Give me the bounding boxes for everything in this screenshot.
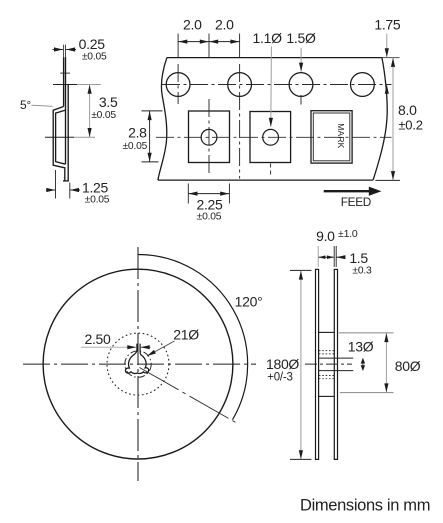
svg-text:1.5: 1.5: [349, 250, 368, 266]
dimension 80 dia top tick: [339, 332, 394, 334]
svg-text:±0.05: ±0.05: [122, 141, 147, 152]
svg-text:3.5: 3.5: [99, 94, 118, 110]
reel flange circle: [43, 269, 233, 459]
sprocket hole 4: [351, 73, 375, 97]
dimension 1.25 extension lines: [55, 170, 57, 199]
dimension 2.0 first segment: [178, 41, 209, 43]
svg-text:5°: 5°: [20, 98, 31, 112]
dimension 2.25 extension lines: [187, 184, 189, 204]
pocket 2 vertical centerline (below pocket): [270, 164, 272, 177]
component pocket 1: [189, 111, 230, 163]
dimension 2.50 left arrow: [126, 346, 136, 348]
svg-text:±0.05: ±0.05: [82, 52, 107, 63]
dimension 0.25 arrows: [53, 49, 64, 51]
pocket outer wall: [53, 107, 65, 181]
hub bore top line / 13 dia tick: [319, 357, 353, 359]
pocket inner wall: [56, 110, 66, 164]
svg-text:1.1Ø: 1.1Ø: [253, 30, 283, 46]
svg-text:2.0: 2.0: [215, 17, 234, 33]
dimension 2.0 second segment: [209, 41, 239, 43]
tape top edge extension tick for 8.0: [382, 57, 400, 59]
dimension 9.0 arrows: [319, 256, 334, 258]
21 dia hub circle (dash-dot): [125, 351, 151, 377]
leader arrow for 21 dia: [147, 341, 175, 356]
svg-text:2.8: 2.8: [128, 125, 147, 141]
svg-text:+0/-3: +0/-3: [267, 372, 293, 384]
tick at bottom of 3.5 dimension: [45, 136, 74, 138]
dimension 180 dia line: [300, 271, 302, 460]
pocket 1 center hole: [201, 129, 217, 145]
dimension 80 dia bottom tick: [340, 392, 394, 394]
pocket row centerline: [156, 136, 392, 138]
svg-text:1.25: 1.25: [82, 180, 109, 196]
sprocket hole 2: [228, 73, 252, 97]
svg-text:9.0: 9.0: [316, 228, 335, 244]
tape bottom edge: [158, 179, 373, 181]
sprocket hole 1 vertical centerline: [177, 64, 179, 104]
dimension 8.0 line: [392, 58, 394, 180]
tape right break edge (wavy): [373, 58, 387, 181]
component pocket 3 inner: [313, 113, 350, 161]
svg-text:2.50: 2.50: [84, 331, 111, 347]
svg-text:MARK: MARK: [336, 123, 346, 148]
sprocket hole 2 vertical centerline: [239, 64, 241, 179]
tape top edge: [167, 57, 382, 59]
svg-text:2.25: 2.25: [196, 196, 223, 212]
hub bore bottom line / 13 dia tick: [319, 370, 353, 372]
sprocket hole 1: [166, 73, 190, 97]
dimension 180 dia top tick: [290, 269, 312, 271]
hub outer bottom line (80 dia): [319, 395, 334, 397]
FEED direction arrow: [324, 190, 370, 192]
dimension 13 dia arrows: [362, 359, 364, 370]
carrier tape front surface line: [63, 57, 65, 106]
dimension 1.75 lower arrow: [386, 85, 388, 94]
dimension 1.75 upper arrow: [386, 34, 388, 58]
dimension 2.8 line: [149, 111, 151, 162]
120 degree arc: [138, 254, 248, 419]
hub outer top line (80 dia): [319, 331, 334, 333]
5 degree leader line: [32, 105, 53, 106]
dimension 2.50 leader line: [81, 346, 131, 348]
reel horizontal centerline: [23, 363, 256, 365]
hub center bell shape: [125, 351, 148, 374]
120 degree sector radial line: [140, 368, 238, 424]
leader arrow for 1.5 dia: [300, 48, 302, 72]
sprocket hole row centerline: [162, 84, 392, 86]
tape left break edge (wavy): [158, 58, 167, 181]
svg-text:±1.0: ±1.0: [338, 228, 358, 240]
svg-text:13Ø: 13Ø: [348, 339, 374, 355]
profile bottom cap: [63, 180, 69, 182]
svg-text:21Ø: 21Ø: [173, 326, 199, 342]
svg-text:8.0: 8.0: [398, 102, 417, 118]
component pocket 3 outer (mark pocket): [311, 111, 352, 163]
svg-text:180Ø: 180Ø: [266, 356, 299, 372]
carrier tape back surface line: [67, 85, 69, 181]
svg-text:FEED: FEED: [341, 195, 371, 209]
component pocket 2: [250, 112, 291, 163]
dimension 2.50 right arrow: [141, 346, 151, 348]
carrier tape inner surface line: [65, 57, 67, 164]
svg-text:Dimensions in mm: Dimensions in mm: [300, 497, 430, 515]
svg-text:±0.2: ±0.2: [398, 118, 422, 133]
hidden tape lines (dotted): [319, 351, 334, 379]
pocket 2 center hole: [263, 129, 279, 145]
small nick tick on strip: [60, 72, 70, 74]
reel vertical centerline: [137, 247, 139, 481]
dimension 2.0/2.0 extension lines: [178, 34, 240, 58]
dimension 3.5 line: [89, 85, 91, 137]
center lines of holes and pockets: [156, 64, 392, 179]
reel centerlines: [23, 247, 256, 481]
svg-text:±0.3: ±0.3: [352, 266, 372, 277]
svg-text:±0.05: ±0.05: [197, 211, 222, 222]
svg-text:±0.05: ±0.05: [91, 110, 116, 121]
dimension 80 dia line: [385, 333, 387, 392]
dimension 1.5 arrow: [336, 256, 345, 258]
svg-text:0.25: 0.25: [79, 36, 106, 52]
dimension 180 dia bottom tick: [290, 458, 312, 460]
extension lines above carrier strip: [64, 45, 66, 58]
leader arrow for 1.1 dia: [270, 47, 273, 127]
dimension 2.25 line: [189, 193, 230, 195]
svg-text:1.5Ø: 1.5Ø: [286, 30, 316, 46]
svg-text:120°: 120°: [235, 293, 263, 309]
dimension 2.8 ticks: [142, 110, 163, 112]
sprocket hole 3 vertical centerline (below hole): [300, 95, 302, 105]
svg-text:80Ø: 80Ø: [395, 358, 421, 374]
dimension 9.0 extension lines: [317, 246, 319, 267]
svg-text:2.0: 2.0: [183, 17, 202, 33]
dotted hub circle: [107, 333, 169, 395]
dimension 1.25 arrows: [46, 189, 55, 191]
bottom extension tick for 8.0: [375, 179, 400, 181]
pocket 1 vertical centerline: [208, 99, 210, 177]
right flange: [334, 269, 337, 459]
hub key slot lines (2.50 wide): [137, 344, 140, 352]
tick at top of 3.5 dimension: [53, 84, 77, 86]
svg-text:1.75: 1.75: [374, 16, 401, 32]
left flange: [316, 269, 319, 459]
svg-text:±0.05: ±0.05: [85, 195, 110, 206]
reel side view centerline: [305, 363, 352, 365]
sprocket hole 3: [289, 73, 313, 97]
